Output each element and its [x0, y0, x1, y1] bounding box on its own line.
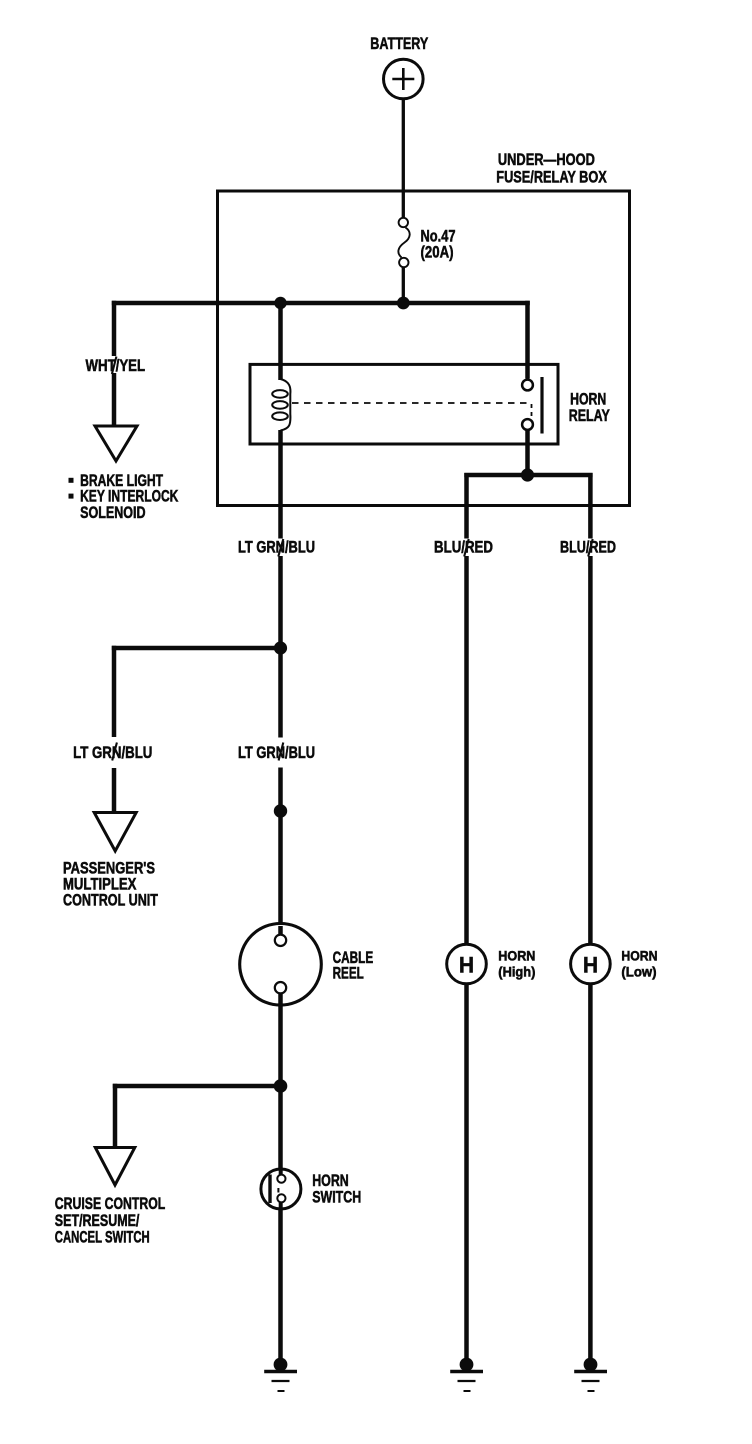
wire bus to relay contact: [525, 301, 530, 379]
svg-text:(Low): (Low): [621, 965, 656, 980]
wire fuse to bus: [402, 268, 405, 304]
svg-text:(High): (High): [498, 965, 535, 980]
wire multiplex branch vertical: [112, 646, 117, 812]
svg-text:SET/RESUME/: SET/RESUME/: [55, 1212, 140, 1230]
svg-text:HORN: HORN: [570, 391, 606, 409]
arrow to brake light circuit: [95, 426, 137, 461]
relay coil: [272, 379, 290, 431]
horn high: [447, 944, 487, 984]
wire label slash bridges: [112, 357, 593, 761]
wire horn low to ground: [588, 984, 593, 1361]
svg-text:KEY INTERLOCK: KEY INTERLOCK: [80, 488, 178, 506]
wire cruise branch vertical: [113, 1084, 118, 1148]
svg-text:UNDER—HOOD: UNDER—HOOD: [498, 151, 595, 169]
svg-text:CRUISE CONTROL: CRUISE CONTROL: [55, 1195, 166, 1213]
battery positive terminal: [384, 59, 424, 99]
relay armature dashed line: [292, 403, 532, 417]
connector dot: [274, 804, 287, 817]
svg-text:LT GRN/BLU: LT GRN/BLU: [238, 539, 315, 557]
svg-text:(20A): (20A): [421, 244, 454, 262]
label No.47 (20A): [421, 228, 456, 262]
ground G3 (horn low): [574, 1358, 607, 1391]
label BLU/RED left: [434, 539, 493, 557]
svg-text:BATTERY: BATTERY: [370, 35, 428, 53]
label HORN (High): [498, 948, 535, 979]
junction dot cruise branch: [274, 1079, 288, 1093]
under-hood fuse/relay box: [218, 191, 630, 506]
wire relay coil to LT GRN/BLU: [278, 430, 283, 648]
label HORN RELAY: [569, 391, 610, 426]
svg-text:HORN: HORN: [312, 1172, 349, 1190]
ground G2 (horn high): [450, 1358, 483, 1391]
junction dot horn feed: [521, 468, 534, 481]
svg-text:RELAY: RELAY: [569, 407, 610, 425]
wire relay contact to horn feed: [525, 431, 530, 478]
wire bus to relay coil: [278, 303, 283, 380]
label WHT/YEL: [86, 357, 146, 375]
relay contact bottom: [522, 419, 533, 430]
junction dot bus/coil wire: [274, 297, 286, 309]
horn switch: [261, 1168, 301, 1210]
wire to horn high: [464, 473, 469, 945]
svg-text:HORN: HORN: [621, 948, 657, 963]
label BATTERY: [370, 35, 428, 53]
svg-text:REEL: REEL: [333, 964, 364, 982]
label CRUISE CONTROL SET/RESUME/ CANCEL SWITCH: [55, 1195, 166, 1246]
relay contact top: [522, 380, 533, 391]
label CABLE REEL: [333, 949, 374, 982]
wire horn feed horizontal: [464, 473, 592, 478]
svg-text:HORN: HORN: [498, 948, 535, 963]
ground G1 (horn switch): [264, 1358, 297, 1391]
junction dot multiplex branch: [274, 641, 287, 654]
svg-text:CONTROL UNIT: CONTROL UNIT: [63, 892, 158, 910]
svg-text:FUSE/RELAY BOX: FUSE/RELAY BOX: [496, 169, 607, 187]
wire LT GRN/BLU to cable reel: [278, 648, 283, 936]
label LT GRN/BLU top: [238, 539, 315, 557]
arrow to passenger's multiplex control unit: [94, 813, 136, 852]
label LT GRN/BLU mid-right: [238, 744, 315, 762]
svg-text:SWITCH: SWITCH: [312, 1188, 361, 1206]
label UNDER-HOOD FUSE/RELAY BOX: [496, 151, 607, 187]
label HORN SWITCH: [312, 1172, 361, 1207]
wire bus: [112, 301, 530, 306]
horn relay box: [250, 364, 558, 444]
wire WHT/YEL branch: [112, 301, 117, 425]
svg-text:LT GRN/BLU: LT GRN/BLU: [238, 744, 315, 762]
svg-text:CANCEL SWITCH: CANCEL SWITCH: [55, 1228, 150, 1246]
wire horn switch to ground: [278, 1208, 283, 1361]
fuse No.47: [398, 218, 409, 267]
cable reel: [240, 924, 322, 1006]
label PASSENGER'S MULTIPLEX CONTROL UNIT: [63, 860, 158, 910]
svg-text:SOLENOID: SOLENOID: [80, 504, 146, 522]
wire multiplex branch horizontal: [112, 646, 281, 651]
label BLU/RED right: [560, 539, 616, 557]
label BRAKE LIGHT / KEY INTERLOCK SOLENOID: [69, 472, 179, 522]
wire cruise branch horizontal: [113, 1084, 281, 1089]
arrow to cruise control switch: [95, 1148, 135, 1186]
wire to horn low: [588, 473, 593, 945]
svg-text:H: H: [583, 953, 598, 978]
label HORN (Low): [621, 948, 657, 979]
wire cable reel to horn switch: [278, 1003, 283, 1174]
svg-text:BLU/RED: BLU/RED: [434, 539, 493, 557]
wire horn high to ground: [464, 984, 469, 1361]
horn low: [571, 944, 611, 984]
wire battery to fuse: [402, 99, 405, 218]
label LT GRN/BLU mid-left: [73, 744, 152, 762]
relay contact bar: [540, 377, 543, 434]
junction dot bus/fuse: [397, 297, 410, 310]
svg-text:H: H: [459, 953, 474, 978]
